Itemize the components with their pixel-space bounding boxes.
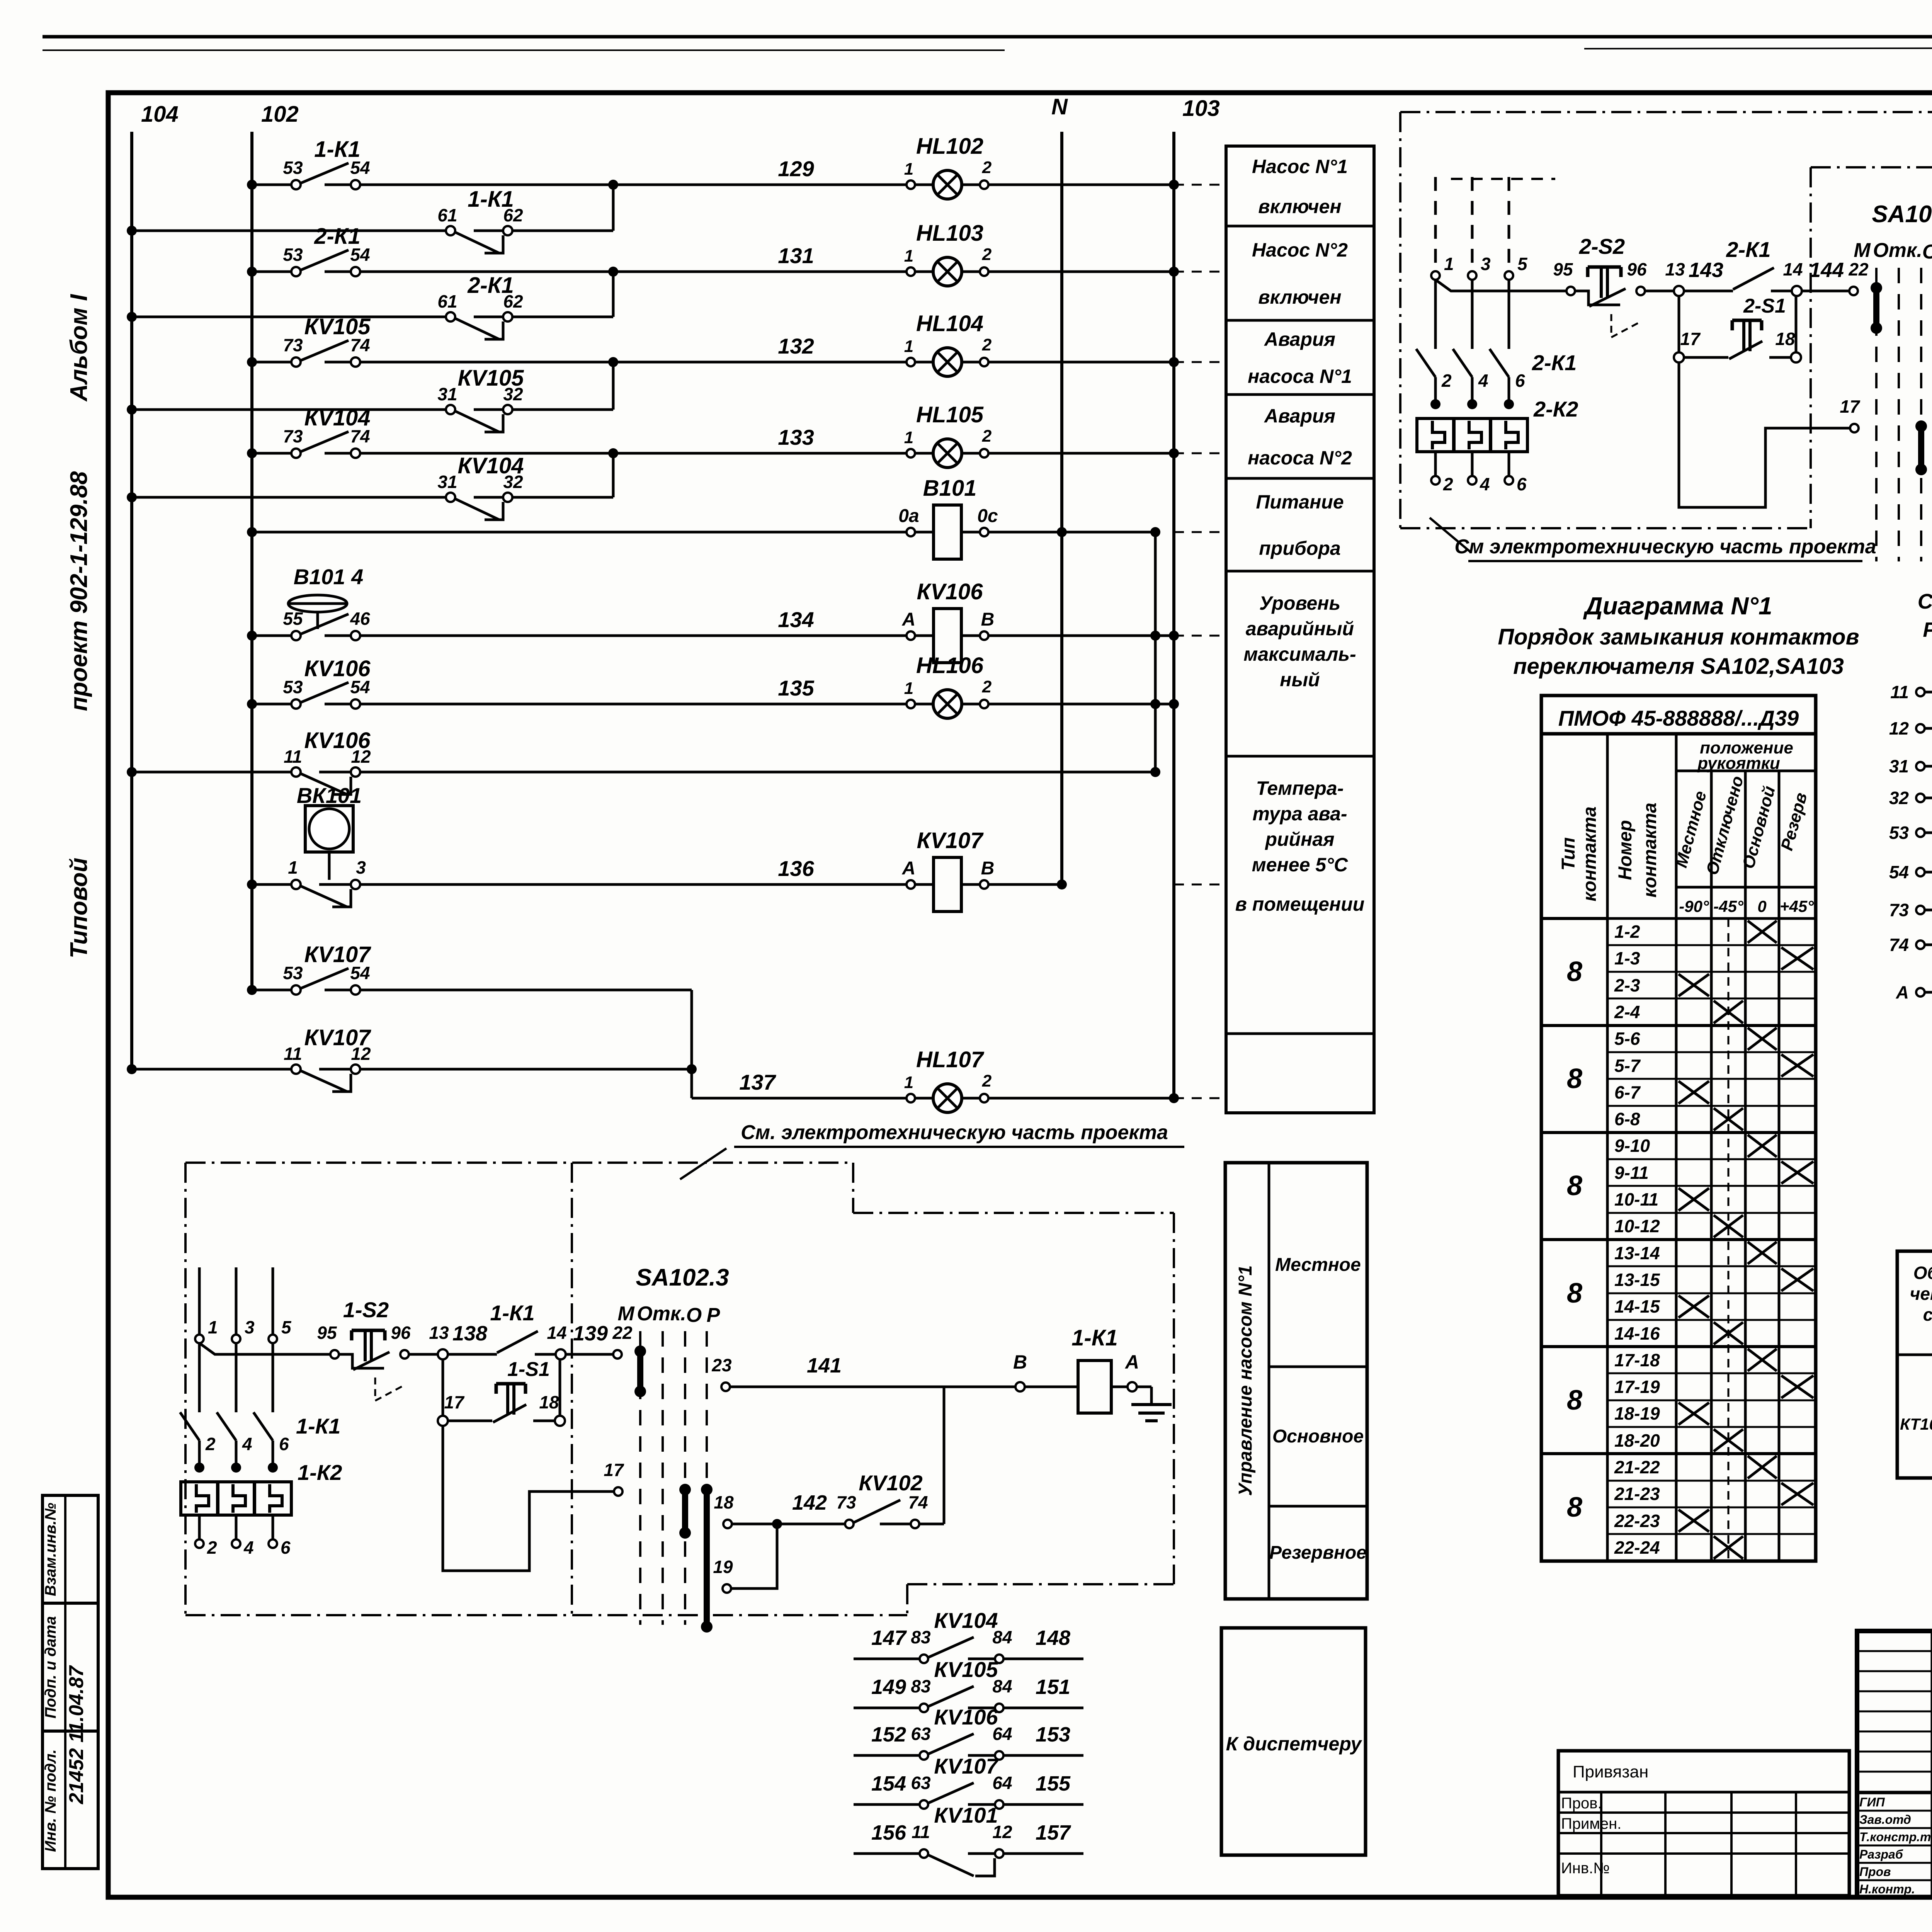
svg-text:152: 152 xyxy=(871,1723,906,1746)
svg-text:В: В xyxy=(981,858,995,879)
svg-text:96: 96 xyxy=(1627,259,1647,279)
svg-text:104: 104 xyxy=(141,102,179,127)
svg-text:В: В xyxy=(1013,1351,1027,1373)
svg-text:14-15: 14-15 xyxy=(1614,1296,1660,1316)
wire rung 131 xyxy=(252,270,291,273)
svg-text:1-К1: 1-К1 xyxy=(1071,1325,1117,1350)
terminal 95 and button 1-S2 xyxy=(330,1350,339,1359)
svg-text:61: 61 xyxy=(437,291,457,311)
wire to bus N xyxy=(988,531,1155,534)
wire 137 xyxy=(692,1097,906,1100)
small table Привязан xyxy=(1558,1751,1849,1896)
svg-text:рийная: рийная xyxy=(1264,828,1334,850)
contact type symbol 8 xyxy=(1541,1345,1607,1348)
svg-text:6-8: 6-8 xyxy=(1614,1109,1640,1129)
svg-text:96: 96 xyxy=(391,1323,411,1343)
svg-text:136: 136 xyxy=(778,856,814,881)
svg-text:1-К2: 1-К2 xyxy=(298,1460,342,1485)
svg-text:Т.констр.т.: Т.констр.т. xyxy=(1859,1830,1932,1844)
svg-text:53: 53 xyxy=(283,158,303,178)
svg-text:3: 3 xyxy=(1481,254,1491,274)
svg-text:Схемы расположения выводов кон: Схемы расположения выводов контактов и о… xyxy=(1918,589,1932,613)
relay coil KV107 xyxy=(934,857,961,912)
svg-text:74: 74 xyxy=(1889,935,1909,955)
contact KV106 11-12 xyxy=(291,767,301,777)
svg-text:1-2: 1-2 xyxy=(1614,922,1640,942)
switch closed position bars xyxy=(1873,288,1879,328)
svg-text:Уровень: Уровень xyxy=(1259,592,1340,614)
svg-text:13: 13 xyxy=(429,1323,449,1343)
svg-text:147: 147 xyxy=(871,1626,907,1650)
svg-text:2: 2 xyxy=(982,677,992,696)
wire to riser xyxy=(360,1068,692,1071)
X mark row 22-23 xyxy=(1679,1510,1709,1532)
X mark row 10-12 xyxy=(1714,1215,1743,1237)
feed lines continue xyxy=(1434,280,1437,349)
svg-text:0а: 0а xyxy=(898,506,919,526)
svg-text:157: 157 xyxy=(1036,1821,1071,1844)
svg-text:12: 12 xyxy=(1889,718,1909,738)
dashed link to annotation xyxy=(1174,361,1226,363)
svg-text:в помещении: в помещении xyxy=(1235,893,1365,915)
svg-text:О: О xyxy=(686,1304,702,1327)
svg-text:133: 133 xyxy=(778,425,814,449)
svg-text:10-12: 10-12 xyxy=(1614,1216,1660,1236)
svg-text:КV101: КV101 xyxy=(934,1803,998,1827)
svg-text:насоса N°2: насоса N°2 xyxy=(1248,447,1352,469)
svg-text:14: 14 xyxy=(1783,259,1803,279)
wire and riser join xyxy=(512,230,613,232)
svg-text:151: 151 xyxy=(1036,1675,1070,1699)
link 18 to 14 xyxy=(1795,296,1798,352)
svg-text:61: 61 xyxy=(437,205,457,225)
svg-text:102: 102 xyxy=(261,102,299,127)
svg-text:менее 5°С: менее 5°С xyxy=(1252,854,1348,876)
svg-text:Авария: Авария xyxy=(1264,405,1335,427)
svg-text:31: 31 xyxy=(1889,756,1909,776)
svg-text:83: 83 xyxy=(911,1676,931,1696)
feed lines continue xyxy=(198,1343,201,1412)
svg-text:8: 8 xyxy=(1567,1063,1582,1094)
svg-text:К диспетчеру: К диспетчеру xyxy=(1226,1733,1362,1755)
svg-text:КV105: КV105 xyxy=(457,366,524,391)
relay coil 1-K1 with ground xyxy=(1015,1382,1025,1391)
svg-text:контакта: контакта xyxy=(1640,803,1660,898)
dashed link to annotation xyxy=(1174,184,1226,186)
wire 132 xyxy=(360,361,906,364)
interlock arrow xyxy=(375,1378,404,1401)
svg-text:1: 1 xyxy=(904,679,913,698)
X mark row 22-24 xyxy=(1714,1536,1743,1559)
svg-text:Обозна-: Обозна- xyxy=(1913,1263,1932,1283)
svg-text:Взам.инв.№: Взам.инв.№ xyxy=(42,1503,59,1596)
bus 103 xyxy=(1172,132,1175,1100)
svg-text:3: 3 xyxy=(356,857,366,878)
svg-text:53: 53 xyxy=(1889,823,1909,843)
wire rung NC 2-К1 xyxy=(132,316,446,318)
wire rung B101 xyxy=(252,531,906,534)
svg-text:149: 149 xyxy=(871,1675,906,1699)
svg-text:2: 2 xyxy=(1441,371,1452,391)
riser for wire 137 xyxy=(690,990,693,1098)
svg-text:129: 129 xyxy=(778,156,814,181)
svg-text:Пров: Пров xyxy=(1859,1865,1891,1879)
svg-text:83: 83 xyxy=(911,1627,931,1647)
wire rung KV107 53-54 xyxy=(252,989,291,992)
svg-text:31: 31 xyxy=(437,472,457,492)
svg-text:13-15: 13-15 xyxy=(1614,1270,1660,1290)
contact pair 53-63 54-64 xyxy=(1916,828,1925,837)
svg-text:Типовой: Типовой xyxy=(66,858,92,959)
X mark row 2-3 xyxy=(1679,974,1709,996)
feed lines pump 2 xyxy=(1434,177,1437,271)
riser joining rows xyxy=(1154,532,1157,772)
svg-text:SA103.2: SA103.2 xyxy=(1872,201,1932,228)
wire and riser join xyxy=(512,408,613,411)
lamp HL104 xyxy=(933,348,962,376)
svg-text:А: А xyxy=(1896,982,1909,1002)
X mark row 14-16 xyxy=(1714,1322,1743,1344)
contact type symbol 8 xyxy=(1541,1024,1607,1027)
svg-text:насоса N°1: насоса N°1 xyxy=(1248,366,1352,387)
terminal 22 xyxy=(1849,287,1858,295)
svg-text:А: А xyxy=(902,609,916,630)
svg-text:М: М xyxy=(1854,239,1871,262)
bus 104 xyxy=(130,132,133,1069)
bus 102 xyxy=(250,132,253,990)
svg-text:17-19: 17-19 xyxy=(1614,1377,1660,1397)
svg-text:11: 11 xyxy=(1890,682,1909,702)
svg-text:8: 8 xyxy=(1567,956,1582,987)
svg-text:SA102.3: SA102.3 xyxy=(636,1264,729,1291)
main contacts 1-К1 xyxy=(180,1412,199,1440)
svg-text:6-7: 6-7 xyxy=(1614,1082,1641,1102)
svg-text:74: 74 xyxy=(908,1492,928,1512)
branch to button S1 xyxy=(1678,296,1680,353)
svg-text:HL103: HL103 xyxy=(916,221,983,246)
svg-text:максималь-: максималь- xyxy=(1243,643,1356,665)
contact КV105 73-74 xyxy=(291,357,301,367)
svg-text:6: 6 xyxy=(1515,371,1525,391)
svg-text:В101 4: В101 4 xyxy=(294,565,364,589)
device B101 coil xyxy=(934,505,961,559)
svg-text:103: 103 xyxy=(1182,96,1220,121)
svg-text:22-24: 22-24 xyxy=(1614,1537,1660,1558)
svg-text:1-К1: 1-К1 xyxy=(490,1301,534,1325)
svg-text:53: 53 xyxy=(283,963,303,983)
contact 2-К1 53-54 xyxy=(291,267,301,276)
svg-text:КV104: КV104 xyxy=(304,405,370,430)
interlock arrow xyxy=(1611,314,1640,337)
wire rung 135 xyxy=(252,703,291,706)
svg-text:2-К1: 2-К1 xyxy=(314,224,360,249)
svg-text:2: 2 xyxy=(982,1071,992,1090)
terminal 96 xyxy=(1636,287,1645,295)
svg-text:134: 134 xyxy=(778,607,814,632)
feed lines pump 1 xyxy=(198,1267,201,1334)
wire rung 134 xyxy=(252,634,291,637)
X mark row 13-14 xyxy=(1748,1242,1777,1264)
X mark row 10-11 xyxy=(1679,1188,1709,1211)
X mark row 14-15 xyxy=(1679,1296,1709,1318)
svg-text:11: 11 xyxy=(912,1822,930,1842)
svg-text:2: 2 xyxy=(207,1537,217,1558)
wire to bus 103 xyxy=(988,703,1174,706)
svg-text:4: 4 xyxy=(243,1537,254,1558)
svg-text:КV106: КV106 xyxy=(304,656,371,681)
svg-text:Номер: Номер xyxy=(1615,820,1636,880)
svg-text:тура ава-: тура ава- xyxy=(1252,803,1347,825)
terminals 1 3 5 xyxy=(1431,271,1440,280)
table PMOF outer xyxy=(1541,696,1816,734)
contact pair 11-21 12-22 xyxy=(1916,688,1925,696)
svg-text:54: 54 xyxy=(1889,862,1909,882)
svg-text:переключателя SА102,SА103: переключателя SА102,SА103 xyxy=(1513,654,1844,679)
svg-text:HL104: HL104 xyxy=(916,311,983,336)
wire rung NC КV105 xyxy=(132,408,446,411)
svg-text:КV106: КV106 xyxy=(304,728,371,753)
lamp HL107 xyxy=(933,1084,962,1112)
contact 2-К1 61-62 xyxy=(446,312,455,321)
svg-text:КV107: КV107 xyxy=(917,828,984,853)
svg-text:0с: 0с xyxy=(977,506,998,526)
table body xyxy=(1541,734,1816,1561)
temperature sensor BK101 contact 1-3 xyxy=(291,880,301,889)
X mark row 2-4 xyxy=(1714,1001,1743,1023)
X mark row 9-10 xyxy=(1748,1135,1777,1157)
svg-text:А: А xyxy=(902,858,916,879)
svg-text:HL102: HL102 xyxy=(916,134,983,159)
X mark row 9-11 xyxy=(1781,1162,1813,1184)
wire from line 1 xyxy=(199,1343,335,1354)
X mark row 17-19 xyxy=(1781,1376,1813,1398)
X mark row 5-6 xyxy=(1748,1028,1777,1050)
terminal 96 xyxy=(400,1350,409,1359)
wire rung 136 xyxy=(252,883,291,886)
svg-text:17-18: 17-18 xyxy=(1614,1350,1660,1370)
svg-text:2: 2 xyxy=(982,427,992,446)
svg-text:2: 2 xyxy=(1443,474,1453,494)
svg-text:63: 63 xyxy=(911,1724,931,1744)
svg-text:9-11: 9-11 xyxy=(1614,1163,1649,1183)
svg-text:19: 19 xyxy=(713,1557,733,1577)
svg-text:138: 138 xyxy=(452,1322,487,1345)
lamp HL106 xyxy=(933,690,962,718)
svg-text:КV104: КV104 xyxy=(934,1608,998,1633)
wire 144 xyxy=(1802,290,1849,293)
relay coil A-B xyxy=(1916,988,1925,997)
svg-text:КV107: КV107 xyxy=(304,942,371,967)
svg-text:Авария: Авария xyxy=(1264,328,1335,350)
svg-text:Зав.отд: Зав.отд xyxy=(1859,1813,1911,1827)
svg-text:153: 153 xyxy=(1036,1723,1070,1746)
wire 138 xyxy=(448,1353,497,1356)
svg-text:2: 2 xyxy=(205,1434,216,1454)
svg-text:139: 139 xyxy=(573,1322,608,1345)
X mark row 5-7 xyxy=(1781,1054,1813,1077)
svg-text:5: 5 xyxy=(281,1317,292,1337)
svg-text:1-К1: 1-К1 xyxy=(468,187,514,212)
svg-text:46: 46 xyxy=(350,609,370,629)
svg-text:21452 11.04.87: 21452 11.04.87 xyxy=(65,1665,88,1804)
wire 143 xyxy=(1684,290,1733,293)
svg-text:32: 32 xyxy=(1889,788,1909,808)
pump 2 enclosure dash-dot box xyxy=(1400,111,1932,113)
svg-text:18-19: 18-19 xyxy=(1614,1403,1660,1423)
svg-text:Резервное: Резервное xyxy=(1269,1543,1367,1563)
X mark row 18-20 xyxy=(1714,1429,1743,1451)
page outer top border xyxy=(43,35,1932,39)
svg-text:-90°: -90° xyxy=(1679,897,1709,915)
svg-text:Порядок замыкания контактов: Порядок замыкания контактов xyxy=(1498,624,1859,650)
X mark row 17-18 xyxy=(1748,1349,1777,1371)
contact КV106 telemetry row xyxy=(854,1754,919,1757)
svg-text:контакта: контакта xyxy=(1580,806,1600,901)
bus N xyxy=(1060,132,1063,884)
terminal 23 xyxy=(721,1383,730,1391)
table PMOF header xyxy=(1541,696,1816,1561)
svg-text:6: 6 xyxy=(279,1434,289,1454)
X mark row 21-22 xyxy=(1748,1456,1777,1478)
svg-text:+45°: +45° xyxy=(1780,897,1814,915)
svg-text:КV105: КV105 xyxy=(304,314,371,339)
svg-text:53: 53 xyxy=(283,245,303,265)
link 18 to 14 xyxy=(559,1359,561,1416)
terminal 14 xyxy=(556,1349,566,1359)
svg-text:2-S2: 2-S2 xyxy=(1579,234,1625,259)
svg-text:1: 1 xyxy=(904,160,913,179)
svg-text:148: 148 xyxy=(1036,1626,1070,1650)
svg-text:4: 4 xyxy=(1480,474,1490,494)
svg-text:КV106: КV106 xyxy=(917,579,983,604)
svg-text:144: 144 xyxy=(1809,259,1844,282)
svg-text:5-7: 5-7 xyxy=(1614,1056,1641,1076)
dashed link to annotation xyxy=(1174,884,1226,886)
contact KV106 53-54 xyxy=(291,699,301,709)
wire to riser 137 xyxy=(360,989,692,992)
wire to bus 103 xyxy=(988,184,1174,186)
svg-text:14-16: 14-16 xyxy=(1614,1323,1660,1344)
switch closed position bars xyxy=(637,1351,643,1391)
svg-text:135: 135 xyxy=(778,676,814,700)
svg-text:КV105: КV105 xyxy=(934,1657,998,1682)
svg-text:3: 3 xyxy=(245,1317,255,1337)
svg-text:22-23: 22-23 xyxy=(1614,1511,1660,1531)
wire 135 xyxy=(360,703,906,706)
svg-text:53: 53 xyxy=(283,677,303,697)
wire to bus 103 xyxy=(988,361,1174,364)
svg-text:Насос N°2: Насос N°2 xyxy=(1252,239,1348,261)
svg-text:Диаграмма N°1: Диаграмма N°1 xyxy=(1583,592,1772,620)
X mark row 6-7 xyxy=(1679,1081,1709,1104)
contact type symbol 8 xyxy=(1541,1238,1607,1241)
svg-text:18: 18 xyxy=(1775,329,1795,349)
contact type symbol 8 xyxy=(1541,1131,1607,1134)
svg-text:73: 73 xyxy=(283,426,303,446)
svg-text:13-14: 13-14 xyxy=(1614,1243,1660,1263)
main contacts 2-К1 xyxy=(1416,349,1435,377)
svg-text:8: 8 xyxy=(1567,1492,1582,1523)
svg-text:5: 5 xyxy=(1517,254,1528,274)
X mark row 21-23 xyxy=(1781,1483,1813,1505)
svg-text:8: 8 xyxy=(1567,1170,1582,1201)
svg-text:Н.контр.: Н.контр. xyxy=(1859,1882,1915,1896)
terminal 14 xyxy=(1792,286,1802,296)
header положение рукоятки xyxy=(1676,770,1816,772)
names column grid xyxy=(1931,1631,1932,1897)
wire to riser xyxy=(360,771,1155,774)
svg-text:155: 155 xyxy=(1036,1772,1071,1795)
X mark row 6-8 xyxy=(1714,1108,1743,1130)
contact pair 31-41 32-42 xyxy=(1916,762,1925,770)
dashed state line xyxy=(1728,918,1730,1561)
wire rung 133 xyxy=(252,452,291,455)
svg-text:132: 132 xyxy=(778,334,814,358)
svg-text:Пров.: Пров. xyxy=(1561,1795,1602,1812)
wire 141 xyxy=(730,1386,944,1388)
dashed link to annotation xyxy=(1174,271,1226,273)
terminal 13 junction xyxy=(1645,290,1679,293)
wire 139 xyxy=(566,1353,613,1356)
wire rung KV107 11-12 xyxy=(132,1068,291,1071)
svg-text:2: 2 xyxy=(982,158,992,177)
svg-text:8: 8 xyxy=(1567,1385,1582,1416)
svg-text:См электротехническую часть: См электротехническую часть проекта xyxy=(1454,536,1876,558)
svg-text:17: 17 xyxy=(444,1392,465,1412)
terminal 18 xyxy=(1791,352,1801,362)
wire and riser join xyxy=(512,496,613,499)
lamp HL102 xyxy=(933,170,962,199)
annotation boxes column xyxy=(1226,146,1374,1113)
svg-text:2-S1: 2-S1 xyxy=(1743,295,1786,317)
contact KV107 11-12 xyxy=(291,1065,301,1074)
svg-text:4: 4 xyxy=(1478,371,1488,391)
svg-text:2-К2: 2-К2 xyxy=(1533,397,1578,421)
wire from line 1 xyxy=(1435,280,1571,291)
svg-text:Привязан: Привязан xyxy=(1573,1762,1648,1781)
svg-text:1-К1: 1-К1 xyxy=(314,137,360,162)
svg-text:включен: включен xyxy=(1258,196,1341,217)
svg-text:137: 137 xyxy=(739,1070,776,1094)
control mode box Управление насосом N1 xyxy=(1225,1163,1367,1599)
svg-text:2-3: 2-3 xyxy=(1614,975,1640,995)
terminal 95 and button 2-S2 xyxy=(1566,287,1575,295)
wire 133 xyxy=(360,452,906,455)
angle row xyxy=(1676,886,1816,889)
svg-text:КV106: КV106 xyxy=(934,1705,998,1729)
terminals 1 3 5 xyxy=(195,1335,204,1343)
svg-text:Отк.: Отк. xyxy=(1873,239,1922,262)
svg-text:6: 6 xyxy=(281,1537,291,1558)
svg-text:Темпера-: Темпера- xyxy=(1256,777,1344,799)
svg-text:63: 63 xyxy=(911,1773,931,1793)
svg-text:22: 22 xyxy=(1848,259,1869,279)
wire 136 xyxy=(360,883,906,886)
contact КV101 telemetry row xyxy=(854,1852,919,1855)
contact КV107 telemetry row xyxy=(854,1803,919,1806)
svg-text:См. электротехническую часть: См. электротехническую часть проекта xyxy=(741,1121,1168,1144)
svg-text:73: 73 xyxy=(1889,900,1909,920)
holding contact 1-К1 xyxy=(497,1331,538,1353)
svg-text:N: N xyxy=(1051,94,1068,119)
svg-text:Реле промежуточное: Реле промежуточное xyxy=(1923,618,1932,641)
svg-text:ГИП: ГИП xyxy=(1859,1795,1885,1809)
svg-text:Тип: Тип xyxy=(1558,837,1579,871)
svg-text:10-11: 10-11 xyxy=(1614,1189,1658,1209)
svg-text:1: 1 xyxy=(904,1073,913,1092)
svg-text:73: 73 xyxy=(836,1492,856,1512)
svg-text:аварийный: аварийный xyxy=(1246,618,1354,639)
